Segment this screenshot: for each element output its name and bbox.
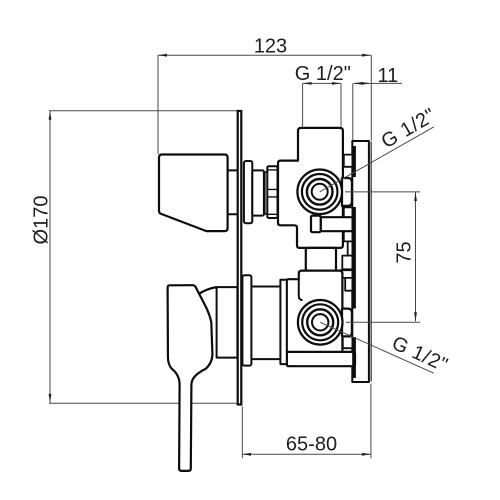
svg-text:75: 75 (394, 241, 416, 263)
svg-text:G 1/2": G 1/2" (295, 63, 351, 85)
svg-text:65-80: 65-80 (286, 434, 337, 456)
svg-text:123: 123 (254, 35, 287, 57)
svg-text:Ø170: Ø170 (31, 196, 53, 245)
svg-text:11: 11 (378, 65, 399, 87)
